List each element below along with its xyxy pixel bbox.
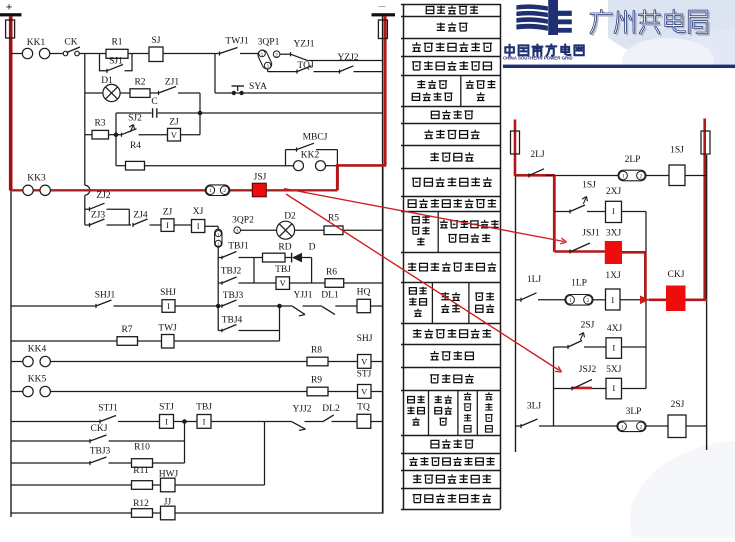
svg-text:1SJ: 1SJ xyxy=(670,146,684,156)
svg-text:C: C xyxy=(151,97,157,107)
svg-text:2SJ: 2SJ xyxy=(671,400,685,410)
svg-text:I: I xyxy=(611,295,614,305)
svg-text:2: 2 xyxy=(640,424,643,430)
svg-text:I: I xyxy=(203,416,206,426)
svg-text:SJ: SJ xyxy=(152,36,161,46)
svg-text:TWJ1: TWJ1 xyxy=(225,37,248,47)
svg-text:R7: R7 xyxy=(121,325,132,335)
svg-text:2: 2 xyxy=(587,298,590,304)
svg-text:I: I xyxy=(612,343,615,353)
svg-text:YJJ2: YJJ2 xyxy=(292,405,311,415)
svg-text:YJJ1: YJJ1 xyxy=(293,291,312,301)
svg-text:KK1: KK1 xyxy=(27,38,46,48)
svg-text:3QP2: 3QP2 xyxy=(232,216,254,226)
svg-text:I: I xyxy=(167,301,170,311)
svg-text:2SJ: 2SJ xyxy=(581,321,595,331)
svg-text:SHJ1: SHJ1 xyxy=(95,291,116,301)
svg-text:TBJ3: TBJ3 xyxy=(90,447,111,457)
svg-text:R9: R9 xyxy=(311,376,322,386)
svg-text:—: — xyxy=(378,3,387,11)
svg-text:JJ: JJ xyxy=(164,498,172,508)
svg-text:ZJ: ZJ xyxy=(163,208,173,218)
svg-text:SJ2: SJ2 xyxy=(128,114,142,124)
svg-text:ZJ2: ZJ2 xyxy=(96,191,111,201)
svg-text:CKJ: CKJ xyxy=(91,424,108,434)
svg-text:KK2: KK2 xyxy=(301,151,320,161)
svg-text:HQ: HQ xyxy=(357,288,371,298)
svg-text:CHINA SOUTHERN POWER GRID: CHINA SOUTHERN POWER GRID xyxy=(503,55,573,60)
svg-text:2LJ: 2LJ xyxy=(530,150,545,160)
svg-text:JSJ1: JSJ1 xyxy=(582,229,600,239)
svg-text:TBJ: TBJ xyxy=(275,265,291,275)
svg-text:TQJ: TQJ xyxy=(297,61,314,71)
svg-text:TBJ1: TBJ1 xyxy=(228,242,249,252)
svg-text:3QP1: 3QP1 xyxy=(258,38,280,48)
svg-text:2: 2 xyxy=(640,174,643,180)
svg-text:MBCJ: MBCJ xyxy=(303,133,328,143)
svg-text:XJ: XJ xyxy=(193,207,204,217)
svg-text:I: I xyxy=(166,220,169,230)
svg-text:JSJ: JSJ xyxy=(254,173,267,183)
svg-text:1: 1 xyxy=(209,188,212,194)
svg-text:TBJ4: TBJ4 xyxy=(222,316,243,326)
svg-text:1: 1 xyxy=(622,174,625,180)
svg-text:I: I xyxy=(612,206,615,216)
svg-text:2XJ: 2XJ xyxy=(606,187,622,197)
svg-text:YZJ2: YZJ2 xyxy=(337,53,358,63)
svg-text:4XJ: 4XJ xyxy=(607,324,623,334)
svg-text:5XJ: 5XJ xyxy=(606,365,622,375)
svg-text:TWJ: TWJ xyxy=(158,324,177,334)
svg-text:ZJ: ZJ xyxy=(169,118,179,128)
svg-text:DL1: DL1 xyxy=(321,291,339,301)
svg-text:1LP: 1LP xyxy=(571,279,587,289)
svg-text:TQ: TQ xyxy=(357,403,370,413)
svg-text:R8: R8 xyxy=(311,346,322,356)
svg-text:2LP: 2LP xyxy=(625,155,641,165)
svg-text:TBJ3: TBJ3 xyxy=(223,291,244,301)
svg-text:I: I xyxy=(165,416,168,426)
svg-text:JSJ2: JSJ2 xyxy=(579,365,597,375)
svg-text:TBJ: TBJ xyxy=(196,403,212,413)
svg-text:ZJ3: ZJ3 xyxy=(91,211,106,221)
svg-text:1XJ: 1XJ xyxy=(605,271,621,281)
svg-text:V: V xyxy=(361,386,368,396)
svg-text:V: V xyxy=(280,278,287,288)
svg-text:ZJ1: ZJ1 xyxy=(165,78,180,88)
svg-text:1: 1 xyxy=(621,424,624,430)
svg-text:1SJ: 1SJ xyxy=(582,181,596,191)
svg-text:D2: D2 xyxy=(284,212,296,222)
svg-text:D1: D1 xyxy=(101,76,113,86)
svg-text:R10: R10 xyxy=(134,443,150,453)
svg-text:R4: R4 xyxy=(130,141,141,151)
svg-text:2: 2 xyxy=(223,188,226,194)
svg-text:R3: R3 xyxy=(94,119,105,129)
svg-text:R11: R11 xyxy=(133,466,149,476)
svg-text:R1: R1 xyxy=(111,38,122,48)
svg-text:D: D xyxy=(309,243,316,253)
svg-text:ZJ4: ZJ4 xyxy=(133,211,148,221)
svg-text:R6: R6 xyxy=(326,268,337,278)
svg-text:DL2: DL2 xyxy=(322,404,340,414)
svg-text:CK: CK xyxy=(64,38,77,48)
svg-text:HWJ: HWJ xyxy=(159,470,179,480)
svg-text:+: + xyxy=(6,2,13,14)
svg-text:KK5: KK5 xyxy=(28,374,47,384)
svg-text:TBJ2: TBJ2 xyxy=(221,267,242,277)
svg-text:1: 1 xyxy=(569,298,572,304)
svg-text:R2: R2 xyxy=(134,78,145,88)
svg-text:STJ: STJ xyxy=(159,403,174,413)
svg-text:3LP: 3LP xyxy=(626,407,642,417)
svg-text:STJ1: STJ1 xyxy=(98,404,118,414)
svg-text:CKJ: CKJ xyxy=(668,270,685,280)
svg-text:RD: RD xyxy=(278,243,291,253)
svg-text:I: I xyxy=(197,221,200,231)
svg-text:V: V xyxy=(361,356,368,366)
svg-text:SYA: SYA xyxy=(249,82,267,92)
svg-text:SHJ: SHJ xyxy=(357,334,373,344)
svg-text:STJ: STJ xyxy=(357,370,372,380)
svg-text:V: V xyxy=(171,130,178,140)
svg-text:R12: R12 xyxy=(133,499,149,509)
svg-text:SHJ: SHJ xyxy=(160,288,176,298)
svg-text:KK3: KK3 xyxy=(27,174,46,184)
svg-text:3XJ: 3XJ xyxy=(606,229,622,239)
svg-text:YZJ1: YZJ1 xyxy=(293,40,314,50)
svg-text:3LJ: 3LJ xyxy=(527,402,542,412)
svg-text:KK4: KK4 xyxy=(28,344,47,354)
svg-text:SJ1: SJ1 xyxy=(109,57,123,67)
svg-text:I: I xyxy=(612,383,615,393)
svg-text:1LJ: 1LJ xyxy=(527,275,542,285)
